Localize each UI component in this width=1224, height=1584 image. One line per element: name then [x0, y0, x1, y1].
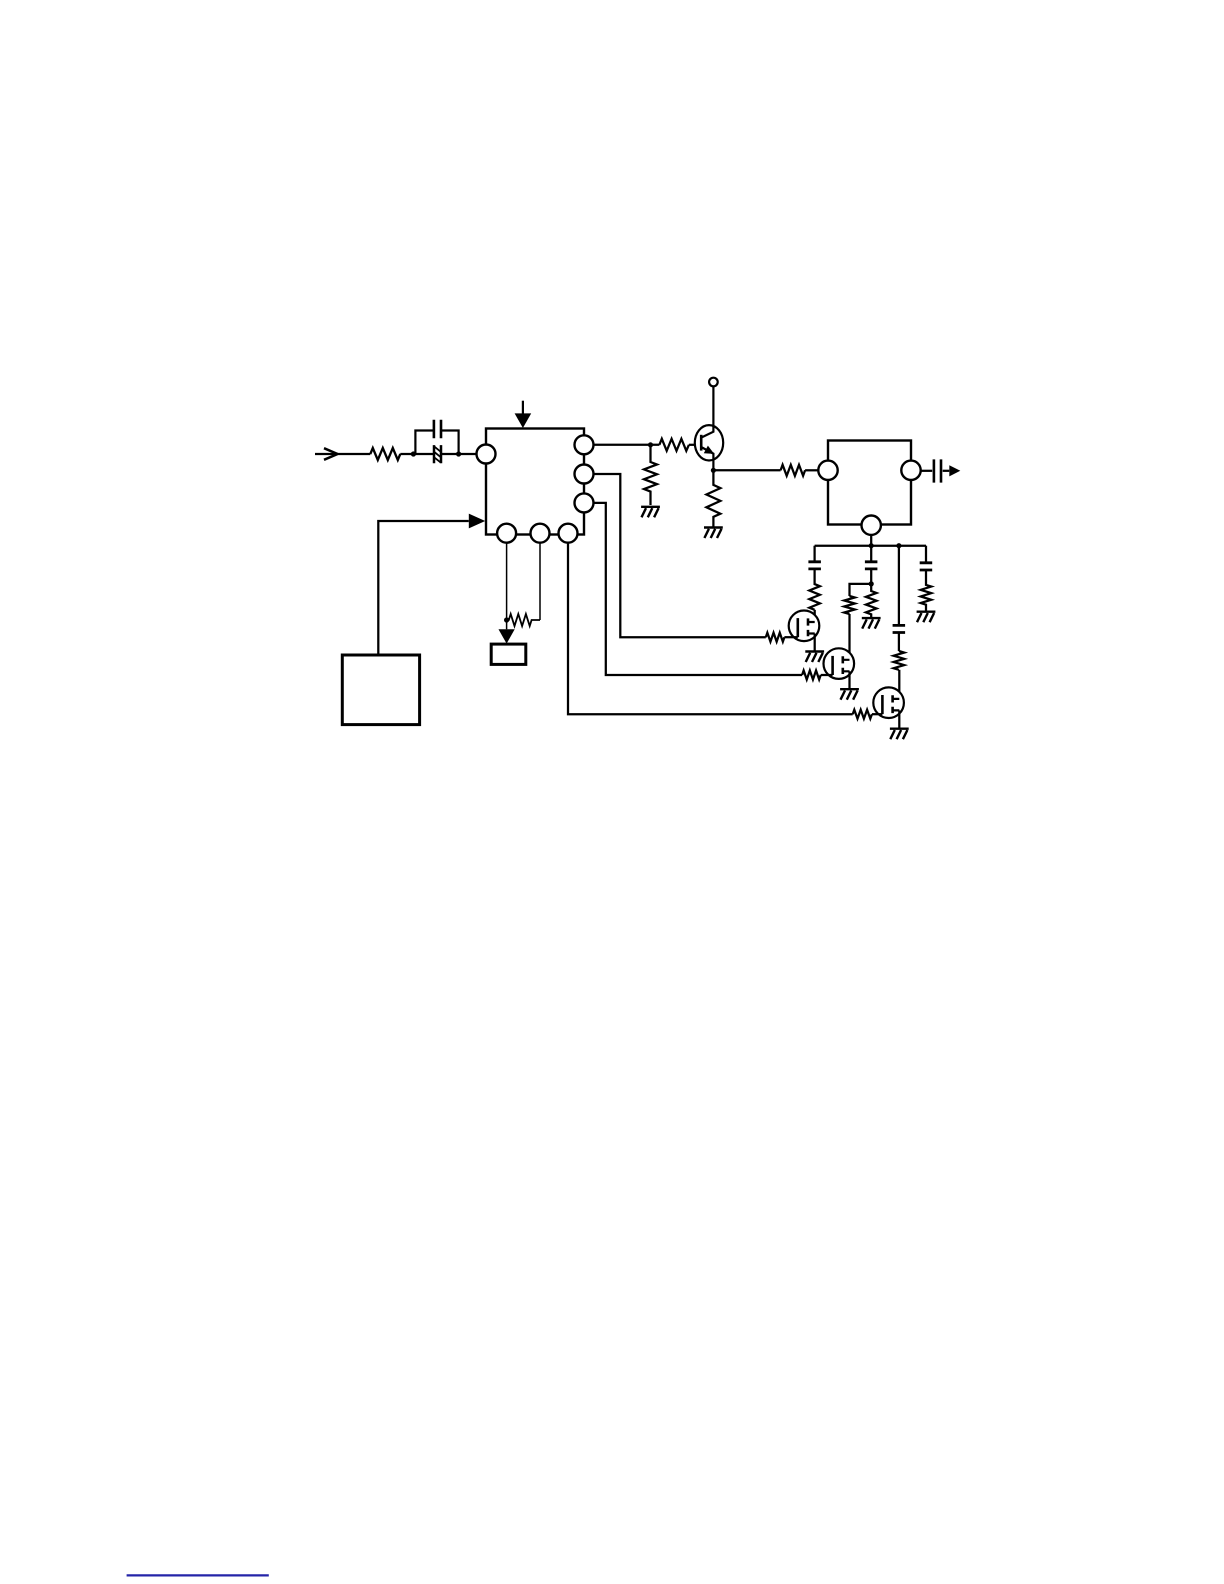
wire to gate: [821, 674, 833, 676]
resistor R6: [659, 439, 689, 451]
resistor R11: [853, 710, 872, 719]
output arrow: [949, 465, 960, 476]
ground: [805, 652, 824, 663]
branch 2: capacitor C4: [870, 546, 872, 561]
resistor R13: [866, 584, 877, 617]
wire pin3 to M2 gate: [594, 503, 803, 675]
arrow into U1 top: [522, 401, 524, 414]
mosfet M3: [873, 687, 904, 718]
resistor R10: [802, 671, 821, 680]
branch 3: wire: [898, 546, 900, 625]
resistor R5: [644, 445, 657, 505]
pin out: [901, 461, 920, 480]
resistor R16: [921, 570, 932, 611]
wire to M2 drain: [848, 614, 850, 660]
wire to U2: [805, 469, 818, 471]
ground: [890, 729, 909, 740]
input arrow: [315, 453, 370, 455]
pin B: [531, 524, 550, 543]
resistor R7: [706, 470, 720, 526]
pin C: [559, 524, 578, 543]
footer blue line: [127, 1574, 269, 1576]
wire pin1 to node C: [594, 444, 660, 446]
wire: [400, 453, 434, 455]
wire pin2 to M1 gate: [594, 474, 766, 637]
wire to M3 drain: [898, 670, 900, 699]
arrow down from node H: [506, 620, 508, 629]
label box: [491, 644, 526, 664]
branch 4: capacitor C6: [925, 546, 927, 562]
IC U2 block: [828, 441, 911, 525]
capacitor C5: [893, 625, 906, 632]
mosfet M1: [789, 611, 820, 642]
resistor R14: [844, 596, 855, 614]
node A: [411, 451, 416, 456]
pin 3: [575, 493, 594, 512]
resistor R9: [766, 633, 785, 642]
arrow into U1 left: [469, 514, 485, 529]
resistor R4: [507, 614, 540, 626]
wire B1 to U1: [378, 521, 469, 655]
ground: [862, 618, 881, 629]
pin gnd: [862, 516, 881, 535]
node H: [504, 617, 509, 622]
wire U2 bottom to bus: [870, 535, 872, 546]
resistor R12: [809, 569, 820, 610]
pin A: [497, 524, 516, 543]
wire to gate: [784, 636, 797, 638]
mosfet M2: [824, 648, 855, 679]
pin 1: [575, 435, 594, 454]
wire node D to R8: [713, 469, 780, 471]
wire to M1 drain: [814, 610, 816, 622]
resistor R15: [894, 651, 905, 670]
capacitor C1 loop: [415, 431, 458, 455]
crystal X1: [434, 445, 441, 463]
IC U1 block: [486, 429, 584, 535]
node B: [456, 451, 461, 456]
resistor R1: [370, 448, 400, 460]
pin in: [818, 461, 837, 480]
wire pinB down: [539, 544, 541, 621]
wire pinA down: [506, 544, 508, 621]
wire to Q1 base: [689, 444, 701, 446]
ground: [917, 612, 936, 623]
node E: [869, 543, 874, 548]
node D emitter: [711, 468, 716, 473]
pin 2: [575, 465, 594, 484]
wire to gate: [872, 713, 883, 715]
ground: [704, 528, 723, 539]
node G: [869, 581, 874, 586]
bus wire: [815, 545, 926, 547]
wire: [441, 453, 477, 455]
M1 source wire: [814, 634, 816, 651]
branch 1: capacitor C3: [813, 546, 815, 561]
wire left: [850, 584, 872, 596]
ground: [840, 689, 859, 700]
output capacitor C2: [921, 470, 933, 472]
node C: [648, 442, 653, 447]
block B1: [342, 655, 419, 725]
wire pinC to M3 gate: [568, 544, 853, 715]
node F: [896, 543, 901, 548]
ground: [641, 507, 660, 518]
resistor R8: [781, 465, 805, 476]
U1 pin circles: [477, 435, 594, 542]
M2 source wire: [848, 671, 850, 688]
U2 pin circles: [818, 461, 920, 535]
pin left: [477, 445, 496, 464]
transistor Q1: [695, 378, 723, 471]
M3 source wire: [898, 710, 900, 727]
